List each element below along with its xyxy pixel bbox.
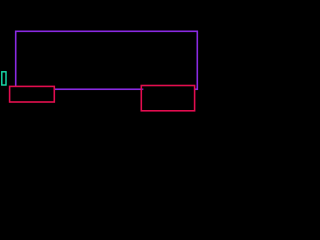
box G1 (small green outline at left edge) [2,72,6,85]
box R1 (left red block, black filled) [10,86,55,102]
box U1 (large purple outline) [16,31,198,89]
wire stub (purple bottom edge remnant inside R2) [142,88,143,90]
box R2 (right red block, black filled) [141,86,194,111]
